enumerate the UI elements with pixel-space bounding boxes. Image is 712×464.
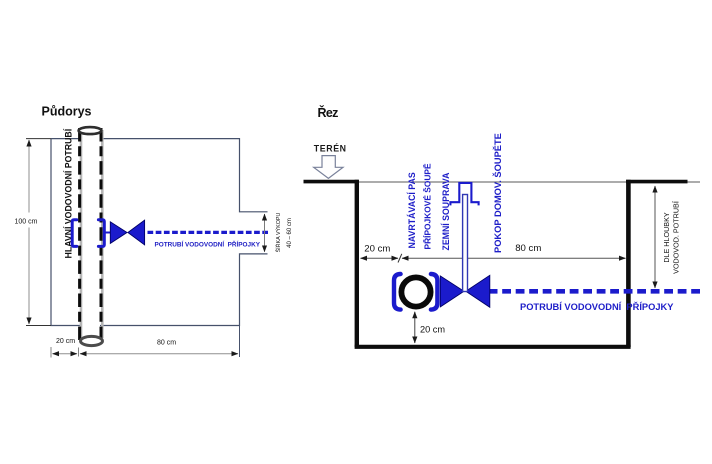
svg-text:DLE HLOUBKY: DLE HLOUBKY [662,212,671,263]
svg-text:NAVRTÁVACÍ PAS: NAVRTÁVACÍ PAS [407,172,417,248]
svg-text:40 – 60 cm: 40 – 60 cm [287,218,293,248]
svg-text:Řez: Řez [318,105,339,120]
svg-text:TERÉN: TERÉN [314,144,347,154]
svg-text:80 cm: 80 cm [515,243,541,254]
svg-text:80 cm: 80 cm [157,340,176,347]
svg-text:20 cm: 20 cm [364,244,390,255]
svg-text:20 cm: 20 cm [56,338,75,345]
svg-text:Půdorys: Půdorys [42,105,92,119]
svg-text:POKOP DOMOV. ŠOUPĚTE: POKOP DOMOV. ŠOUPĚTE [492,133,503,253]
svg-text:100 cm: 100 cm [15,219,38,226]
svg-text:ZEMNÍ SOUPRAVA: ZEMNÍ SOUPRAVA [440,172,451,251]
svg-text:POTRUBÍ VODOVODNÍ PŘÍPOJKY: POTRUBÍ VODOVODNÍ PŘÍPOJKY [155,239,261,248]
svg-text:ŠÍŘKA VÝKOPU: ŠÍŘKA VÝKOPU [274,212,282,252]
svg-text:PŘÍPOJKOVÉ ŠOUPĚ: PŘÍPOJKOVÉ ŠOUPĚ [422,163,433,250]
svg-text:20 cm: 20 cm [420,325,445,335]
svg-text:POTRUBÍ VODOVODNÍ PŘÍPOJKY: POTRUBÍ VODOVODNÍ PŘÍPOJKY [520,301,674,312]
svg-text:VODOVOD. POTRUBÍ: VODOVOD. POTRUBÍ [672,201,681,274]
